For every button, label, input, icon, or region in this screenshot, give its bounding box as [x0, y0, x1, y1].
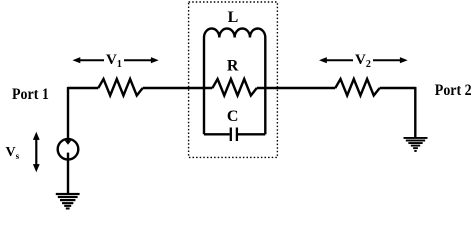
resistor R1 (left series resistor): [98, 79, 142, 96]
ground (left, under source): [56, 193, 80, 210]
arrowhead inside source (pointing down): [65, 140, 72, 144]
dotted box (resonator outline): [189, 2, 278, 157]
capacitor C plates: [230, 128, 232, 142]
source Vs circle: [58, 139, 79, 160]
svg-text:L: L: [228, 9, 239, 26]
V1 arrow (double-headed): [73, 57, 159, 63]
resistor R (inside resonator): [212, 79, 256, 96]
ground (right): [404, 137, 428, 152]
svg-text:C: C: [227, 108, 239, 125]
svg-text:R: R: [227, 57, 239, 74]
V2 arrow (double-headed): [319, 57, 408, 63]
wire: right rail of resonator: [264, 38, 266, 135]
capacitor C branch wires: [204, 133, 230, 135]
wire: R1 to resonator left rail: [143, 87, 213, 89]
inductor L: [204, 28, 265, 37]
wire: R2 to Port2 corner: [380, 87, 416, 89]
wire: Port1 corner down to source: [67, 87, 69, 141]
source bottom stub: [67, 153, 69, 194]
wire: resonator right rail to R2: [257, 87, 336, 89]
svg-text:Port 1: Port 1: [12, 86, 49, 103]
svg-text:Port 2: Port 2: [435, 82, 472, 99]
wire: Port1 lead to R1: [68, 87, 98, 89]
Vs arrow (double-headed, vertical): [33, 132, 40, 173]
wire: left rail of resonator: [203, 38, 205, 135]
resistor R2 (right series resistor): [335, 79, 379, 96]
wire: Port2 corner down to ground: [414, 87, 416, 138]
